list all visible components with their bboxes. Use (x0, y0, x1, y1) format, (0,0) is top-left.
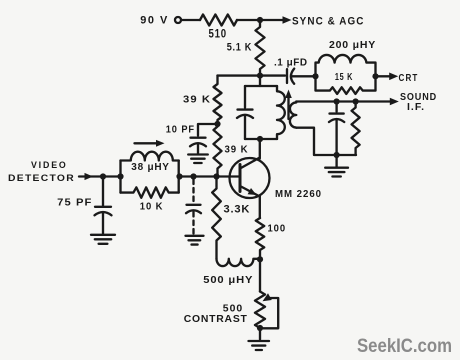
wiper arrowhead (263, 293, 272, 301)
node: left of 38uHY tank (117, 173, 123, 179)
node: filter cap top (334, 98, 340, 104)
ground under 75PF (91, 235, 115, 244)
resistor 100 (256, 218, 264, 259)
svg-text:15 K: 15 K (335, 71, 353, 83)
arrowhead video input (85, 173, 94, 180)
wire rail to ground (335, 155, 337, 167)
svg-text:I.F.: I.F. (407, 101, 425, 113)
tank left edge wire (119, 161, 121, 193)
resistor 5.1K (256, 20, 265, 76)
node: stray capacitance tap (190, 173, 196, 179)
svg-text:39 K: 39 K (225, 144, 249, 156)
wire tank to base junction (179, 175, 217, 177)
emitter arrowhead (248, 188, 257, 195)
svg-text:100: 100 (268, 223, 287, 235)
resistor 39K lower (214, 124, 222, 177)
node: right of 38uHY tank (176, 173, 182, 179)
potentiometer 500 CONTRAST (255, 292, 265, 340)
node: tank left (312, 73, 318, 79)
svg-text:3.3K: 3.3K (224, 204, 251, 216)
svg-text:SeekIC.com: SeekIC.com (357, 335, 452, 357)
svg-text:38 μHY: 38 μHY (131, 161, 170, 173)
svg-text:510: 510 (208, 26, 227, 40)
svg-text:10 K: 10 K (140, 201, 164, 213)
node: junction 5.1K / .1uFD / 39K / transformer top (257, 73, 263, 79)
primary loop top edge (245, 85, 277, 87)
svg-text:90 V: 90 V (140, 15, 169, 27)
capacitor 75PF (95, 177, 112, 234)
node: pot bottom (257, 325, 263, 331)
dashed stray capacitor (192, 180, 194, 203)
filter resistor (352, 102, 360, 156)
node: base junction (213, 173, 219, 179)
svg-text:39 K: 39 K (183, 94, 211, 106)
capacitor 10PF (190, 138, 206, 154)
wire node to contrast pot (259, 259, 261, 291)
arrow to SYNC & AGC (283, 16, 292, 24)
node: 39K junction with 10PF (214, 121, 220, 127)
node: filter rail ground tap (334, 152, 340, 158)
wire tank to CRT (376, 75, 390, 77)
terminal 90V input (175, 17, 181, 23)
transformer secondary winding (290, 102, 296, 128)
svg-text:10 PF: 10 PF (166, 125, 195, 136)
svg-text:CONTRAST: CONTRAST (184, 313, 248, 325)
node: emitter / 500uHY junction (257, 256, 263, 262)
resistor 510 (200, 15, 237, 26)
inductor 200uHY (316, 55, 376, 76)
node: video input / 75PF (100, 173, 106, 179)
ground under stray capacitor (186, 236, 204, 245)
wire 90V terminal to resistor 510 (181, 19, 200, 21)
capacitor .1uFD (287, 69, 316, 84)
transformer tuning arrow (287, 97, 289, 120)
svg-text:DETECTOR: DETECTOR (8, 173, 75, 184)
node: tank right (372, 73, 378, 79)
inductor 38uHY (121, 152, 179, 161)
ground under pot (249, 341, 270, 350)
transistor emitter lead (240, 186, 260, 218)
wire node to 39K top (218, 74, 261, 76)
resistor 15K (316, 76, 376, 94)
resistor 3.3K (212, 177, 221, 259)
svg-text:VIDEO: VIDEO (31, 160, 68, 171)
ground under 10PF (188, 155, 208, 164)
pot wiper arm (263, 298, 278, 328)
arrowhead CRT (389, 73, 398, 81)
svg-text:500 μHY: 500 μHY (203, 274, 253, 286)
svg-text:200 μHY: 200 μHY (329, 39, 376, 51)
svg-text:.1 μFD: .1 μFD (274, 56, 308, 68)
tank right edge wire (178, 161, 180, 193)
transformer primary winding (277, 86, 285, 139)
filter capacitor (329, 102, 344, 156)
node: filter res top (353, 98, 359, 104)
wire node to .1uFD (260, 74, 285, 76)
primary loop bottom edge (245, 138, 277, 140)
wire secondary bottom to filter rail (296, 128, 356, 155)
resistor 39K upper (214, 76, 222, 124)
primary tuning capacitor (237, 86, 253, 139)
wire base junction to transistor base (217, 175, 240, 177)
resistor 10K (121, 187, 179, 197)
svg-text:MM 2260: MM 2260 (275, 189, 322, 200)
svg-text:75 PF: 75 PF (57, 197, 92, 209)
wire resistor 510 to node SYNC (237, 19, 284, 21)
transistor Q1 circle (230, 158, 270, 198)
variable arrow over 38uHY (135, 142, 161, 144)
wire video detector input (79, 175, 103, 177)
node: top of 5.1K (257, 17, 263, 23)
svg-text:CRT: CRT (399, 72, 419, 84)
wire 75PF node to 38uHY tank (103, 175, 121, 177)
node: collector to transformer (257, 136, 263, 142)
wire node to 10PF cap (198, 124, 218, 136)
transistor base bar (239, 165, 242, 192)
ground under filter (325, 168, 348, 177)
svg-text:5.1 K: 5.1 K (227, 42, 252, 54)
wire secondary top to SOUND IF (296, 100, 390, 102)
inductor 500uHY (217, 259, 261, 266)
arrowhead SOUND IF (390, 98, 399, 106)
svg-text:SYNC & AGC: SYNC & AGC (292, 15, 365, 27)
wire node to primary loop top (259, 76, 261, 86)
transistor collector lead (240, 139, 260, 169)
